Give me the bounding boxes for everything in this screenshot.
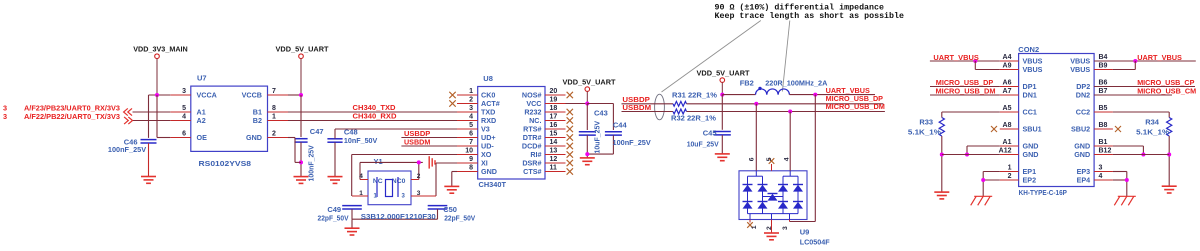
svg-text:MICRO_USB_DM: MICRO_USB_DM — [826, 102, 885, 111]
svg-text:B5: B5 — [1099, 105, 1108, 112]
svg-text:20: 20 — [550, 88, 558, 95]
svg-text:A4: A4 — [1003, 54, 1012, 61]
svg-text:CON2: CON2 — [1018, 45, 1039, 54]
svg-text:8: 8 — [272, 105, 276, 112]
svg-text:MICRO_USB_DM: MICRO_USB_DM — [936, 86, 996, 95]
svg-text:5: 5 — [766, 157, 773, 161]
svg-text:GND: GND — [481, 167, 497, 176]
svg-text:UART_VBUS: UART_VBUS — [1137, 53, 1182, 62]
svg-text:Y1: Y1 — [374, 157, 383, 166]
svg-text:CTS#: CTS# — [523, 167, 541, 176]
svg-text:4: 4 — [1099, 173, 1103, 180]
svg-text:DN1: DN1 — [1023, 91, 1037, 100]
svg-text:10uF_25V: 10uF_25V — [687, 140, 719, 149]
svg-text:3: 3 — [3, 112, 7, 121]
svg-text:4: 4 — [784, 157, 791, 161]
svg-text:13: 13 — [550, 148, 558, 155]
svg-text:CC1: CC1 — [1023, 108, 1037, 117]
svg-text:USBDM: USBDM — [404, 137, 430, 146]
svg-text:OE: OE — [197, 133, 208, 142]
svg-text:3: 3 — [182, 88, 186, 95]
svg-text:VCCB: VCCB — [242, 91, 262, 100]
svg-text:B8: B8 — [1099, 122, 1108, 129]
svg-text:22pF_50V: 22pF_50V — [444, 213, 475, 222]
svg-text:DN2: DN2 — [1076, 91, 1090, 100]
svg-text:4: 4 — [182, 114, 186, 121]
svg-text:B2: B2 — [253, 116, 262, 125]
svg-text:EP2: EP2 — [1023, 176, 1037, 185]
svg-text:VDD_5V_UART: VDD_5V_UART — [563, 78, 616, 87]
svg-text:A/F22/PB22/UART0_TX/3V3: A/F22/PB22/UART0_TX/3V3 — [24, 112, 120, 121]
svg-text:A5: A5 — [1003, 105, 1012, 112]
svg-text:B1: B1 — [1099, 139, 1108, 146]
svg-text:C43: C43 — [594, 109, 608, 118]
svg-text:17: 17 — [550, 114, 558, 121]
svg-text:U8: U8 — [483, 74, 493, 83]
svg-text:4: 4 — [469, 114, 473, 121]
svg-text:100nF_25V: 100nF_25V — [613, 138, 651, 147]
svg-text:VDD_3V3_MAIN: VDD_3V3_MAIN — [133, 45, 188, 54]
svg-text:GND: GND — [1023, 150, 1039, 159]
svg-text:5.1K_1%: 5.1K_1% — [908, 128, 942, 137]
svg-text:1: 1 — [359, 190, 363, 197]
svg-text:2: 2 — [417, 173, 421, 180]
svg-text:15: 15 — [550, 131, 558, 138]
svg-text:UART_VBUS: UART_VBUS — [933, 53, 978, 62]
svg-text:VCCA: VCCA — [197, 91, 217, 100]
svg-text:100nF_25V: 100nF_25V — [108, 145, 146, 154]
svg-text:C44: C44 — [613, 120, 628, 129]
svg-text:VBUS: VBUS — [1023, 65, 1043, 74]
svg-text:22pF_50V: 22pF_50V — [318, 213, 349, 222]
svg-text:9: 9 — [469, 156, 473, 163]
svg-text:A9: A9 — [1003, 63, 1012, 70]
svg-text:2: 2 — [272, 131, 276, 138]
svg-text:5: 5 — [469, 122, 473, 129]
svg-text:19: 19 — [550, 97, 558, 104]
svg-text:USBDM: USBDM — [622, 103, 651, 112]
svg-text:A6: A6 — [1003, 80, 1012, 87]
svg-text:5: 5 — [182, 105, 186, 112]
svg-text:6: 6 — [182, 131, 186, 138]
svg-text:KH-TYPE-C-16P: KH-TYPE-C-16P — [1019, 188, 1067, 197]
svg-text:NC0: NC0 — [392, 178, 406, 185]
svg-text:10: 10 — [465, 148, 473, 155]
svg-text:10uF_25V: 10uF_25V — [593, 121, 602, 154]
svg-text:MICRO_USB_CM: MICRO_USB_CM — [1137, 86, 1196, 95]
svg-text:NC: NC — [373, 178, 383, 185]
svg-text:R32 22R_1%: R32 22R_1% — [671, 113, 716, 122]
svg-text:1: 1 — [751, 225, 758, 229]
svg-text:7: 7 — [469, 139, 473, 146]
svg-text:A8: A8 — [1003, 122, 1012, 129]
svg-text:S3B12.000F1210F30: S3B12.000F1210F30 — [361, 212, 436, 221]
svg-text:3: 3 — [1099, 165, 1103, 172]
svg-text:6: 6 — [749, 157, 756, 161]
svg-text:C45: C45 — [703, 129, 717, 138]
svg-text:R31 22R_1%: R31 22R_1% — [672, 91, 717, 100]
svg-text:B7: B7 — [1099, 88, 1108, 95]
svg-text:LC0504F: LC0504F — [800, 238, 831, 247]
svg-text:SBU2: SBU2 — [1071, 125, 1090, 134]
svg-text:2: 2 — [766, 226, 773, 230]
svg-text:16: 16 — [550, 122, 558, 129]
svg-text:U7: U7 — [197, 74, 207, 83]
svg-text:A1: A1 — [1003, 139, 1012, 146]
svg-text:C47: C47 — [310, 127, 324, 136]
svg-text:CH340_RXD: CH340_RXD — [353, 112, 398, 121]
svg-text:GND: GND — [246, 133, 262, 142]
svg-text:3: 3 — [417, 190, 421, 197]
svg-text:B6: B6 — [1099, 80, 1108, 87]
svg-text:220R_100MHz_2A: 220R_100MHz_2A — [765, 79, 828, 88]
svg-text:4: 4 — [359, 173, 363, 180]
svg-text:A12: A12 — [999, 148, 1012, 155]
svg-text:2: 2 — [1008, 173, 1012, 180]
svg-text:7: 7 — [272, 88, 276, 95]
svg-text:VBUS: VBUS — [1070, 65, 1090, 74]
svg-text:VDD_5V_UART: VDD_5V_UART — [276, 45, 329, 54]
svg-text:1: 1 — [469, 88, 473, 95]
svg-text:B12: B12 — [1099, 148, 1112, 155]
svg-text:3: 3 — [469, 105, 473, 112]
svg-text:1: 1 — [272, 114, 276, 121]
svg-text:100nF_25V: 100nF_25V — [307, 145, 316, 181]
svg-text:CH340T: CH340T — [479, 180, 507, 189]
svg-text:2: 2 — [469, 97, 473, 104]
svg-text:A2: A2 — [197, 116, 206, 125]
svg-text:11: 11 — [550, 165, 558, 172]
svg-text:B9: B9 — [1099, 63, 1108, 70]
svg-text:18: 18 — [550, 105, 558, 112]
svg-text:3: 3 — [782, 226, 789, 230]
svg-text:RS0102YVS8: RS0102YVS8 — [199, 159, 252, 168]
svg-text:R33: R33 — [919, 118, 933, 127]
svg-text:8: 8 — [469, 165, 473, 172]
svg-text:EP4: EP4 — [1077, 176, 1091, 185]
svg-text:5.1K_1%: 5.1K_1% — [1136, 128, 1170, 137]
svg-text:A7: A7 — [1003, 88, 1012, 95]
svg-text:B4: B4 — [1099, 54, 1108, 61]
svg-text:VDD_5V_UART: VDD_5V_UART — [697, 69, 750, 78]
svg-text:FB2: FB2 — [740, 79, 754, 88]
svg-text:6: 6 — [469, 131, 473, 138]
svg-text:12: 12 — [550, 156, 558, 163]
svg-text:GND: GND — [1074, 150, 1090, 159]
svg-text:U9: U9 — [800, 228, 810, 237]
svg-text:CC2: CC2 — [1076, 108, 1090, 117]
svg-text:1: 1 — [1008, 165, 1012, 172]
svg-text:14: 14 — [550, 139, 558, 146]
svg-text:R34: R34 — [1145, 118, 1160, 127]
svg-text:Keep trace length as short as: Keep trace length as short as possible — [715, 11, 905, 21]
svg-text:10nF_50V: 10nF_50V — [344, 136, 378, 145]
svg-text:SBU1: SBU1 — [1023, 125, 1042, 134]
